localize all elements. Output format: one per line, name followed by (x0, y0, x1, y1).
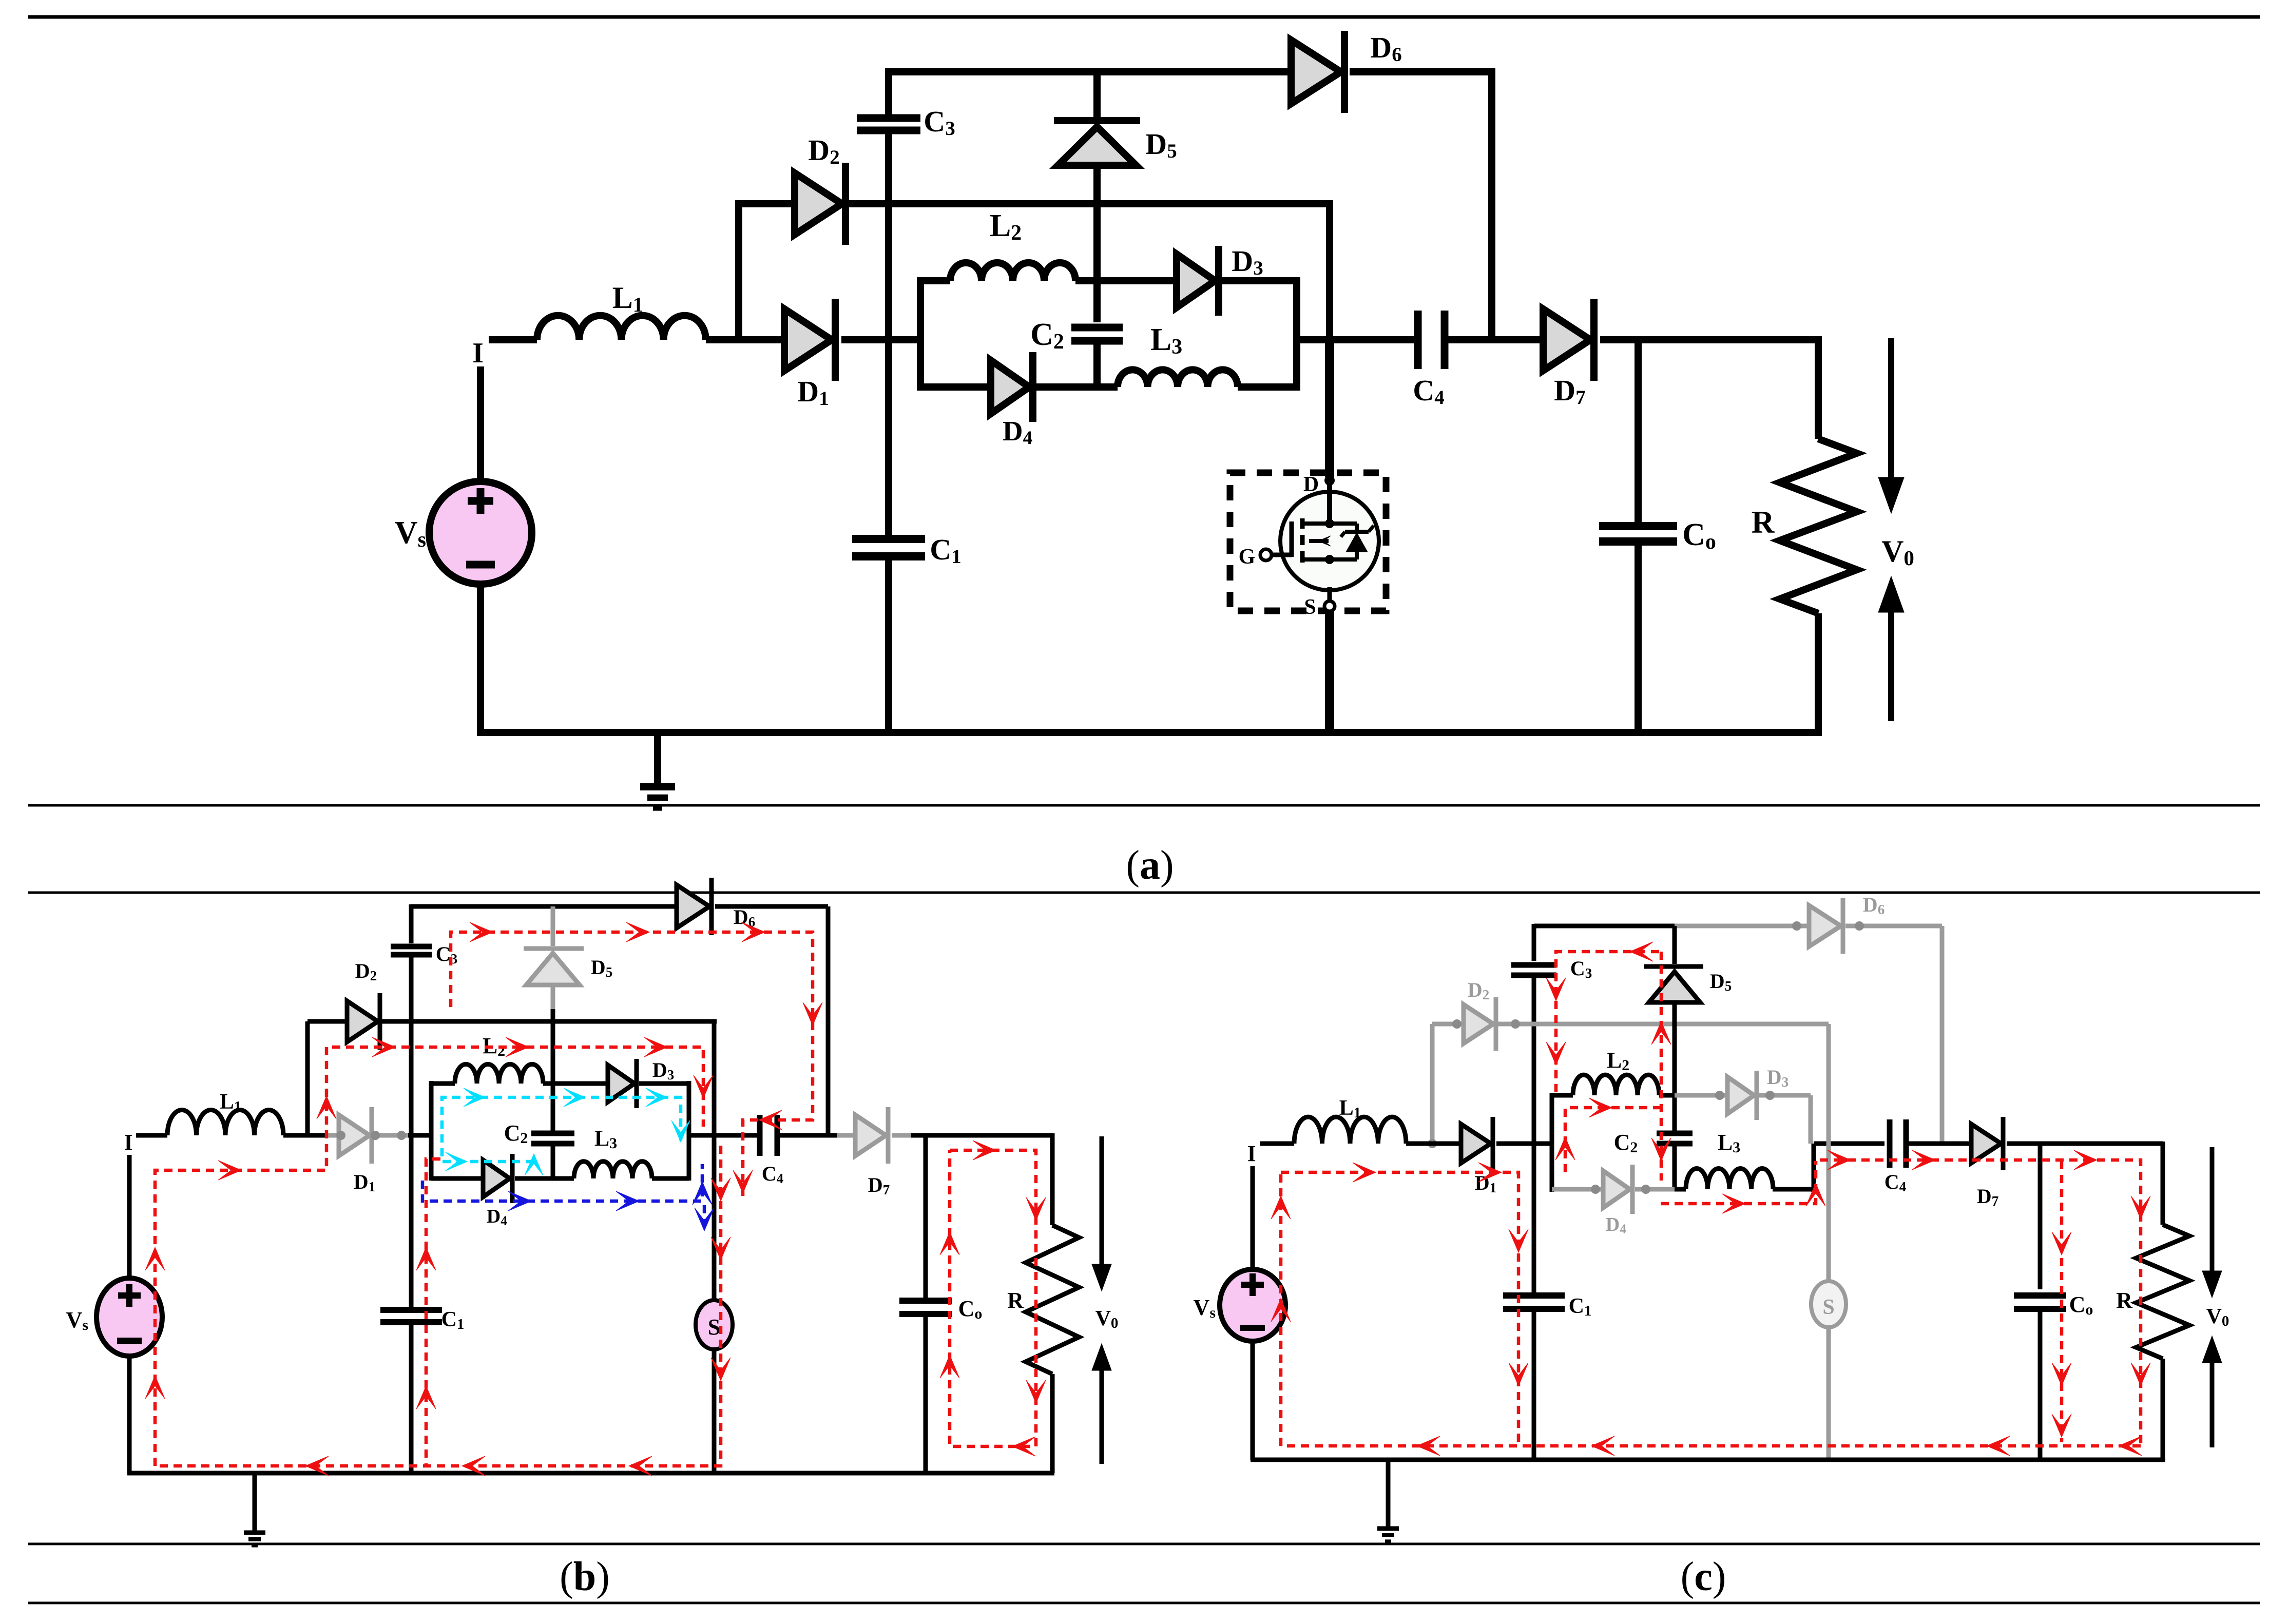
svg-text:I: I (1247, 1141, 1256, 1166)
svg-text:G: G (1239, 545, 1256, 569)
svg-text:D: D (1303, 473, 1319, 496)
svg-text:R: R (2116, 1288, 2133, 1313)
svg-text:S: S (1822, 1296, 1834, 1319)
svg-text:I: I (472, 337, 484, 369)
svg-text:(b): (b) (560, 1554, 610, 1599)
svg-text:R: R (1007, 1288, 1024, 1313)
svg-text:(a): (a) (1126, 843, 1174, 888)
svg-text:(c): (c) (1681, 1554, 1726, 1599)
svg-text:R: R (1752, 505, 1775, 540)
svg-text:I: I (124, 1130, 132, 1155)
svg-text:S: S (1304, 595, 1316, 619)
svg-text:S: S (708, 1314, 720, 1340)
